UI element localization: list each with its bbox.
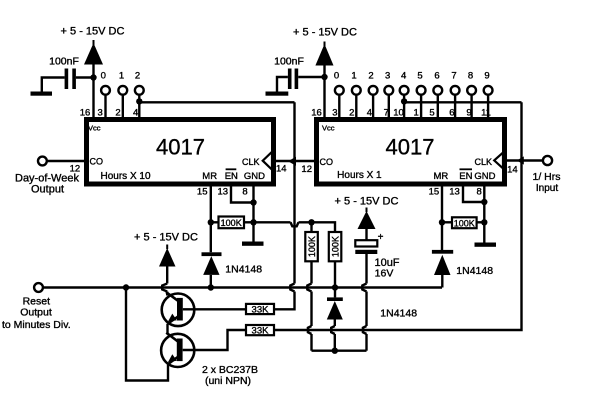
wire C2 right to Vcc	[298, 76, 324, 78]
svg-text:CO: CO	[90, 156, 104, 166]
svg-text:8: 8	[477, 186, 482, 197]
wire GND left pin8	[252, 184, 254, 242]
svg-text:0: 0	[101, 70, 106, 81]
svg-text:Output: Output	[20, 306, 52, 318]
svg-text:1N4148: 1N4148	[456, 265, 493, 277]
node: reset-T2 emitter junction	[123, 284, 129, 290]
svg-text:8: 8	[242, 186, 247, 197]
svg-text:7: 7	[451, 70, 456, 81]
reset rail	[43, 286, 442, 288]
svg-text:3: 3	[385, 70, 390, 81]
svg-text:2: 2	[349, 107, 354, 118]
arrow on CLK wire right	[517, 156, 524, 164]
power arrow (left-middle)	[159, 248, 176, 267]
resistor R1 100K (left)	[211, 221, 219, 223]
svg-text:13: 13	[218, 186, 229, 197]
ground (top-left)	[31, 92, 53, 96]
node: R6-D2 on rail	[332, 284, 338, 290]
wire bottom backup node	[312, 350, 367, 352]
resistor R6 100K (vertical)	[329, 232, 342, 261]
node: EN-GND left	[250, 199, 256, 205]
svg-text:8: 8	[468, 70, 473, 81]
wire reset to T2 emitter	[126, 288, 168, 381]
svg-text:4: 4	[367, 107, 372, 118]
node: MR-R1 junction	[208, 219, 214, 225]
R6 bottom wire to rail node	[334, 261, 336, 287]
svg-text:+ 5 - 15V DC: + 5 - 15V DC	[335, 196, 399, 208]
svg-text:5: 5	[429, 107, 434, 118]
svg-text:33K: 33K	[252, 304, 270, 315]
svg-text:15: 15	[429, 186, 440, 197]
svg-text:Vcc: Vcc	[322, 124, 335, 133]
wire C1 right to Vcc	[76, 76, 94, 78]
resistor R3 33K	[246, 304, 274, 314]
svg-text:100K: 100K	[307, 236, 317, 257]
hop over reset rail	[290, 284, 294, 292]
svg-text:14: 14	[276, 163, 287, 174]
node: MR-R2 junction right	[439, 219, 445, 225]
svg-text:14: 14	[507, 165, 518, 176]
wire pin4 left IC	[138, 95, 140, 118]
svg-text:9: 9	[484, 70, 489, 81]
transistor Q1 BC237B	[162, 294, 195, 327]
wire pin3 left IC	[104, 95, 106, 118]
resistor R5 100K (vertical)	[305, 232, 318, 261]
svg-text:2: 2	[368, 70, 373, 81]
power arrow (middle)	[358, 211, 376, 229]
svg-text:CO: CO	[320, 157, 334, 167]
capacitor C1 100nF plates	[65, 69, 69, 90]
svg-text:Vcc: Vcc	[88, 124, 101, 133]
arrow on CLK wire left	[288, 157, 296, 166]
diode D3 1N4148 (right)	[432, 250, 453, 254]
svg-text:1: 1	[413, 107, 418, 118]
svg-text:to Minutes Div.: to Minutes Div.	[2, 319, 71, 331]
net Q4 to 33K R4: horizontal	[404, 101, 521, 103]
svg-text:2: 2	[135, 70, 140, 81]
svg-text:100K: 100K	[454, 218, 475, 228]
svg-text:EN: EN	[459, 171, 472, 182]
svg-text:100K: 100K	[221, 218, 242, 228]
svg-text:1/ Hrs: 1/ Hrs	[532, 171, 560, 183]
svg-text:6: 6	[449, 107, 454, 118]
svg-text:GND: GND	[244, 171, 265, 182]
node: Q2 tens junction	[136, 98, 142, 104]
svg-text:1N4148: 1N4148	[225, 263, 262, 275]
wire pin2 left IC	[122, 95, 124, 118]
svg-text:0: 0	[334, 70, 339, 81]
capacitor C3 10uF plates	[355, 240, 377, 246]
svg-text:16V: 16V	[375, 267, 394, 279]
wire Vcc right (pin16)	[323, 64, 325, 118]
output terminals 0-9 (right IC)	[334, 70, 493, 117]
svg-text:100nF: 100nF	[49, 56, 79, 68]
node: R1-GND junction	[250, 219, 256, 225]
wire GND right pin8	[483, 184, 485, 243]
node: D2 bottom	[332, 348, 338, 354]
svg-text:EN: EN	[225, 171, 238, 182]
svg-text:4: 4	[133, 107, 138, 118]
net Q2 to 33K R3: horizontal	[139, 101, 294, 103]
svg-text:6: 6	[434, 70, 439, 81]
ground (top-right)	[266, 92, 289, 96]
svg-text:11: 11	[481, 107, 491, 118]
wire EN-GND elbow right	[463, 184, 484, 202]
transistor Q2 BC237B	[161, 334, 194, 367]
wire R1 node to R5/R6 with hop at x294.5	[254, 221, 291, 223]
wire MR right pin15	[441, 184, 443, 250]
ground (left IC)	[242, 242, 264, 246]
svg-text:Hours X 10: Hours X 10	[100, 171, 150, 182]
svg-text:5: 5	[417, 70, 422, 81]
power arrow (top-right)	[315, 44, 333, 66]
IC U2 4017 (Hours X 1)	[317, 120, 505, 185]
net Q4 vertical and bottom return	[274, 102, 522, 330]
resistor R4 33K	[246, 325, 274, 335]
node: left Vcc junction	[90, 74, 96, 80]
U1 CLK wedge	[263, 152, 272, 170]
svg-text:33K: 33K	[252, 326, 270, 337]
resistor R2 100K (right)	[442, 221, 452, 223]
net Q2 vertical drop	[293, 102, 295, 283]
svg-text:13: 13	[449, 186, 460, 197]
svg-text:+: +	[378, 232, 384, 243]
svg-text:3: 3	[98, 107, 103, 118]
U2 CLK wedge	[494, 153, 503, 169]
wire collector T1 to power with hop on rail	[166, 265, 168, 284]
svg-text:16: 16	[311, 107, 322, 118]
wire to C3	[365, 228, 367, 241]
svg-text:1: 1	[351, 70, 356, 81]
wire Q1 emitter to Q2 collector	[166, 324, 168, 335]
node: D1 anode on rail	[208, 284, 214, 290]
svg-text:+ 5 - 15V DC: + 5 - 15V DC	[293, 27, 357, 39]
wire Vcc left (pin16)	[92, 63, 94, 118]
power arrow (top-left)	[84, 43, 103, 65]
svg-text:1: 1	[119, 70, 124, 81]
svg-text:MR: MR	[202, 171, 217, 182]
svg-text:Input: Input	[536, 183, 558, 194]
svg-text:CLK: CLK	[474, 157, 492, 167]
svg-text:4: 4	[401, 70, 406, 81]
svg-text:12: 12	[301, 164, 312, 175]
wire C1 left to ground	[42, 78, 65, 92]
diode D2 1N4148 (middle)	[334, 288, 336, 298]
svg-text:Output: Output	[31, 184, 64, 196]
wire MR left pin15	[210, 184, 212, 252]
wire CLK left (pin14) from right IC CO	[276, 160, 314, 162]
node: EN-GND right	[481, 199, 487, 205]
svg-text:2: 2	[115, 107, 120, 118]
svg-text:3: 3	[332, 107, 337, 118]
diode D1 1N4148 (left)	[202, 252, 222, 256]
ground (right IC)	[475, 243, 497, 247]
svg-text:16: 16	[80, 107, 91, 118]
svg-text:10: 10	[393, 107, 404, 118]
svg-text:4017: 4017	[386, 134, 435, 159]
svg-text:15: 15	[197, 186, 208, 197]
R5 bottom wire with hops	[310, 261, 312, 283]
svg-text:(uni NPN): (uni NPN)	[205, 375, 251, 387]
svg-text:100nF: 100nF	[274, 56, 304, 68]
wire CO left IC pin12	[47, 160, 84, 162]
input terminal 1/hrs	[543, 156, 552, 165]
svg-text:4017: 4017	[156, 134, 205, 159]
svg-text:+ 5 - 15V DC: + 5 - 15V DC	[61, 26, 125, 38]
node: right Vcc junction	[321, 74, 327, 80]
svg-text:100K: 100K	[330, 236, 340, 257]
node: R2-GND junction right	[481, 219, 487, 225]
svg-text:1N4148: 1N4148	[380, 307, 417, 319]
reset output terminal	[34, 283, 43, 292]
svg-text:GND: GND	[474, 171, 495, 182]
wire C2 left to ground	[277, 77, 288, 92]
capacitor C2 100nF plates	[288, 69, 292, 90]
svg-text:CLK: CLK	[242, 157, 260, 167]
day-of-week output terminal	[38, 157, 47, 166]
wire Q2 base	[183, 330, 246, 350]
node: Q4 units junction	[401, 98, 407, 104]
C3 bottom wire with hops	[365, 254, 367, 284]
wire EN-GND elbow left	[231, 184, 254, 203]
wire CLK right (pin14) from input	[507, 159, 543, 161]
svg-text:Hours X 1: Hours X 1	[337, 170, 382, 181]
node: R5 top	[308, 219, 314, 225]
IC U1 4017 (Hours X 10)	[87, 120, 274, 185]
svg-text:MR: MR	[434, 171, 449, 182]
svg-text:+ 5 - 15V DC: + 5 - 15V DC	[134, 232, 198, 244]
